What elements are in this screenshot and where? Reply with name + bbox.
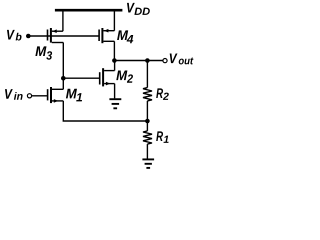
label VDD xyxy=(127,3,150,15)
wire Vout node horizontal xyxy=(114,60,162,62)
node Vb terminal dot xyxy=(26,34,31,39)
label Vb xyxy=(7,30,22,41)
Vout open terminal circle xyxy=(163,59,167,63)
ground (M2 source) xyxy=(109,99,121,108)
Vin open terminal circle xyxy=(27,94,31,98)
label M4 xyxy=(117,30,133,43)
wire node A to M2 gate xyxy=(63,77,99,79)
node A junction dot (M3 drain / M1 drain / M2 gate) xyxy=(61,76,66,81)
wire M4 source to VDD rail xyxy=(113,10,115,31)
label R1 xyxy=(156,131,168,143)
node feedback junction dot (R1/R2/M1 source) xyxy=(145,119,150,124)
transistor M4 xyxy=(99,28,114,43)
label M1 xyxy=(66,89,82,102)
wire M3 drain down to node A xyxy=(62,43,64,79)
resistor R2 xyxy=(143,61,152,122)
wire M3 source to VDD rail xyxy=(62,10,64,31)
node Vout junction dot at M4/M2 drains xyxy=(112,58,117,63)
label R2 xyxy=(156,88,169,100)
wire Vin to M1 gate xyxy=(32,95,48,97)
wire M2 source down to ground xyxy=(114,84,116,99)
node junction dot at R2 top xyxy=(145,58,150,63)
ground (R1 bottom) xyxy=(142,159,154,168)
label M2 xyxy=(116,70,133,82)
wire M2 drain up to Vout node xyxy=(114,61,116,71)
wire M1 source down and right to feedback node xyxy=(63,101,147,121)
label Vin xyxy=(5,89,23,100)
wire Vb to M3 gate and M4 gate xyxy=(28,35,99,37)
wire M4 drain down to Vout node xyxy=(113,41,115,60)
wire M1 drain up to node A xyxy=(62,78,64,89)
label Vout xyxy=(170,53,194,64)
transistor M2 xyxy=(100,68,115,86)
resistor R1 xyxy=(143,121,152,159)
label M3 xyxy=(35,46,52,59)
transistor M1 xyxy=(48,87,64,103)
transistor M3 xyxy=(48,28,64,43)
VDD power rail xyxy=(55,9,123,12)
